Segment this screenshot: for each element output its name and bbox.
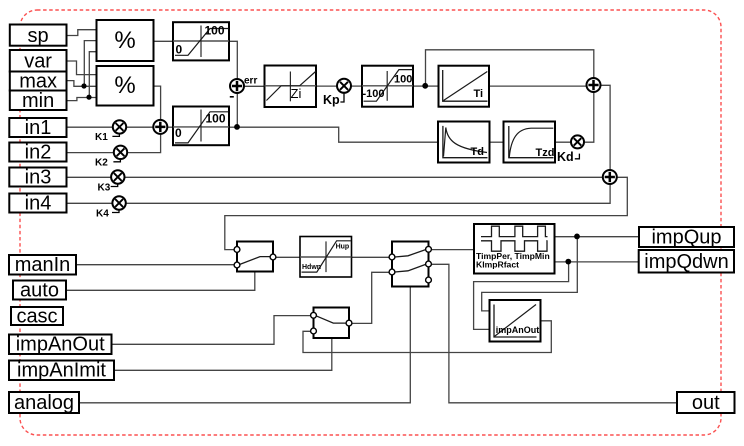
svg-text:100: 100 <box>205 24 225 38</box>
svg-text:in1: in1 <box>25 117 52 139</box>
svg-text:analog: analog <box>14 392 74 414</box>
wire %1 to limiter L1 <box>154 40 174 42</box>
svg-text:-100: -100 <box>363 88 385 100</box>
node E junction dot impQup <box>574 234 580 240</box>
multiplier K3 <box>98 170 125 193</box>
wire Tzd to Kd <box>555 141 572 143</box>
limiter L3 -100..100 <box>362 66 413 107</box>
svg-text:Ti: Ti <box>474 88 484 100</box>
multiplier Kd <box>557 135 584 164</box>
input box casc <box>11 306 63 328</box>
output box out <box>677 392 735 414</box>
svg-text:in2: in2 <box>25 142 52 164</box>
wire switch SW3 to SW2 <box>352 272 389 323</box>
rate limiter block Hup Hdwn <box>300 237 352 278</box>
wire in3 through K3 to summer S2 <box>67 176 603 178</box>
svg-text:0: 0 <box>175 126 182 140</box>
input box in2 <box>9 142 66 164</box>
switch SW2 pulse-analog <box>389 242 431 287</box>
wire Serr to Zi <box>244 85 264 87</box>
svg-text:K3: K3 <box>98 183 111 194</box>
node C junction dot <box>234 124 240 130</box>
svg-text:Hdwn: Hdwn <box>302 264 321 271</box>
input box in4 <box>9 193 66 215</box>
multiplier Kp <box>323 79 351 107</box>
svg-text:manIn: manIn <box>15 254 71 276</box>
wire Kd to summer S1 <box>584 92 594 142</box>
wire node D bypass to summer S1 <box>426 50 594 86</box>
svg-text:K2: K2 <box>95 158 108 169</box>
svg-text:%: % <box>114 27 135 54</box>
output box impQup <box>639 227 734 249</box>
svg-text:Tzd: Tzd <box>536 147 555 159</box>
svg-text:out: out <box>692 392 720 414</box>
node F junction dot impQdwn <box>565 259 571 265</box>
input box sp <box>10 25 67 47</box>
dead zone block Zi <box>265 66 317 108</box>
wire pulse block to impQup <box>555 236 640 238</box>
svg-text:100: 100 <box>394 74 412 86</box>
wire sp to %1 <box>67 30 97 36</box>
input box analog <box>9 392 79 414</box>
svg-text:min: min <box>22 90 54 112</box>
multiplier K4 <box>96 196 126 219</box>
wire impAnOut input to SW3 <box>112 316 311 345</box>
svg-text:impQup: impQup <box>651 227 721 249</box>
wire Hup block to switch SW2 <box>352 256 390 258</box>
svg-text:Td: Td <box>471 146 484 158</box>
wire pulse block to impQdwn <box>555 261 640 263</box>
wire manIn to switch SW1 <box>76 264 234 266</box>
wire L1 to summer Serr <box>229 41 237 79</box>
svg-text:sp: sp <box>28 25 49 47</box>
svg-text:in4: in4 <box>25 193 52 215</box>
switch SW1 manual-auto <box>234 242 276 272</box>
integrator block Ti <box>439 66 490 107</box>
wire SW2 to out <box>432 264 678 403</box>
multiplier K1 <box>95 120 126 143</box>
multiplier K2 <box>95 146 127 169</box>
svg-text:Zi: Zi <box>291 86 302 101</box>
svg-text:err: err <box>244 76 257 87</box>
input box in3 <box>9 167 66 189</box>
svg-text:%: % <box>114 72 135 99</box>
wire in4 through K4 to summer S2 <box>67 184 610 203</box>
wire impAnImit to SW3 control <box>114 338 331 370</box>
svg-text:Kp: Kp <box>323 93 340 107</box>
wire SW1 to Hup block <box>276 256 300 258</box>
wire %2 to summer Sin <box>154 86 161 120</box>
output box impQdwn <box>639 250 734 273</box>
wire in2 through K2 to summer Sin <box>67 134 161 152</box>
svg-text:casc: casc <box>16 306 57 328</box>
switch SW3 impAn select <box>311 308 352 339</box>
svg-text:in3: in3 <box>25 167 52 189</box>
lag block Tzd <box>504 122 556 163</box>
wire L2 to node C <box>229 126 237 128</box>
svg-text:100: 100 <box>206 112 226 126</box>
svg-text:auto: auto <box>20 280 59 302</box>
wire node C to summer Serr minus input <box>236 93 238 127</box>
svg-text:K4: K4 <box>96 209 109 220</box>
input box impAnOut <box>9 334 112 356</box>
input box min <box>10 90 67 112</box>
wire Ti to summer S1 <box>489 85 587 87</box>
wire Zi to Kp <box>316 85 338 87</box>
wire auto to SW1 control <box>66 272 255 291</box>
wire summer Sin to limiter L2 <box>168 126 174 128</box>
summer Serr <box>230 76 258 97</box>
wire var to %2 <box>67 61 97 75</box>
summer Sin <box>153 120 167 134</box>
wire in1 through K1 to summer Sin <box>67 126 154 128</box>
wire SW2 to pulse block <box>432 249 475 251</box>
node A junction dot <box>81 83 86 88</box>
svg-text:K1: K1 <box>95 132 108 143</box>
summer S2 <box>603 170 617 184</box>
limiter L1 0..100 <box>173 22 229 60</box>
wire node B to %1 <box>89 52 97 98</box>
wire Td to Tzd <box>490 141 504 143</box>
wire summer S1 to summer S2 <box>601 85 610 170</box>
summer S1 <box>587 78 601 92</box>
svg-text:impAnOut: impAnOut <box>496 325 540 335</box>
wire node A to %1 <box>84 41 97 87</box>
svg-text:impAnImit: impAnImit <box>17 360 106 382</box>
wire min to node B <box>67 98 97 101</box>
input box in1 <box>9 117 66 139</box>
svg-text:KImpRfact: KImpRfact <box>476 260 519 270</box>
wire node C to Td <box>237 127 438 142</box>
wire Kp to limiter L3 <box>351 85 363 87</box>
svg-text:Hup: Hup <box>336 243 350 250</box>
pulse to analog block impAnOut <box>490 300 541 342</box>
input box auto <box>13 280 66 302</box>
scaler block %1 <box>97 20 154 61</box>
wire analog to SW2 control <box>79 287 410 403</box>
scaler block %2 <box>97 66 154 106</box>
node D junction dot <box>422 83 428 89</box>
limiter L2 0..100 <box>173 107 229 146</box>
wire impQup tap to impAnOut block <box>482 237 578 311</box>
derivative block Td <box>438 122 490 163</box>
input box impAnImit <box>9 360 114 382</box>
wire impAnOut block output to SW3 <box>303 321 551 353</box>
input box var <box>10 50 67 73</box>
wire max to node A <box>67 81 97 87</box>
wire summer S2 to switch SW1 <box>225 177 628 249</box>
node B junction dot <box>86 95 91 100</box>
wire L3 to node D <box>413 85 425 87</box>
svg-text:var: var <box>24 51 52 73</box>
svg-text:0: 0 <box>176 43 183 57</box>
pulse output block TimpPer TimpMin KImpRfact <box>474 224 555 274</box>
svg-text:Kd: Kd <box>557 150 574 164</box>
input box max <box>10 71 67 93</box>
wire node D to Ti <box>426 85 439 87</box>
svg-text:impAnOut: impAnOut <box>16 334 105 356</box>
svg-text:impQdwn: impQdwn <box>644 251 728 273</box>
wire impQdwn tap to impAnOut block <box>474 262 569 330</box>
input box manIn <box>9 254 76 276</box>
